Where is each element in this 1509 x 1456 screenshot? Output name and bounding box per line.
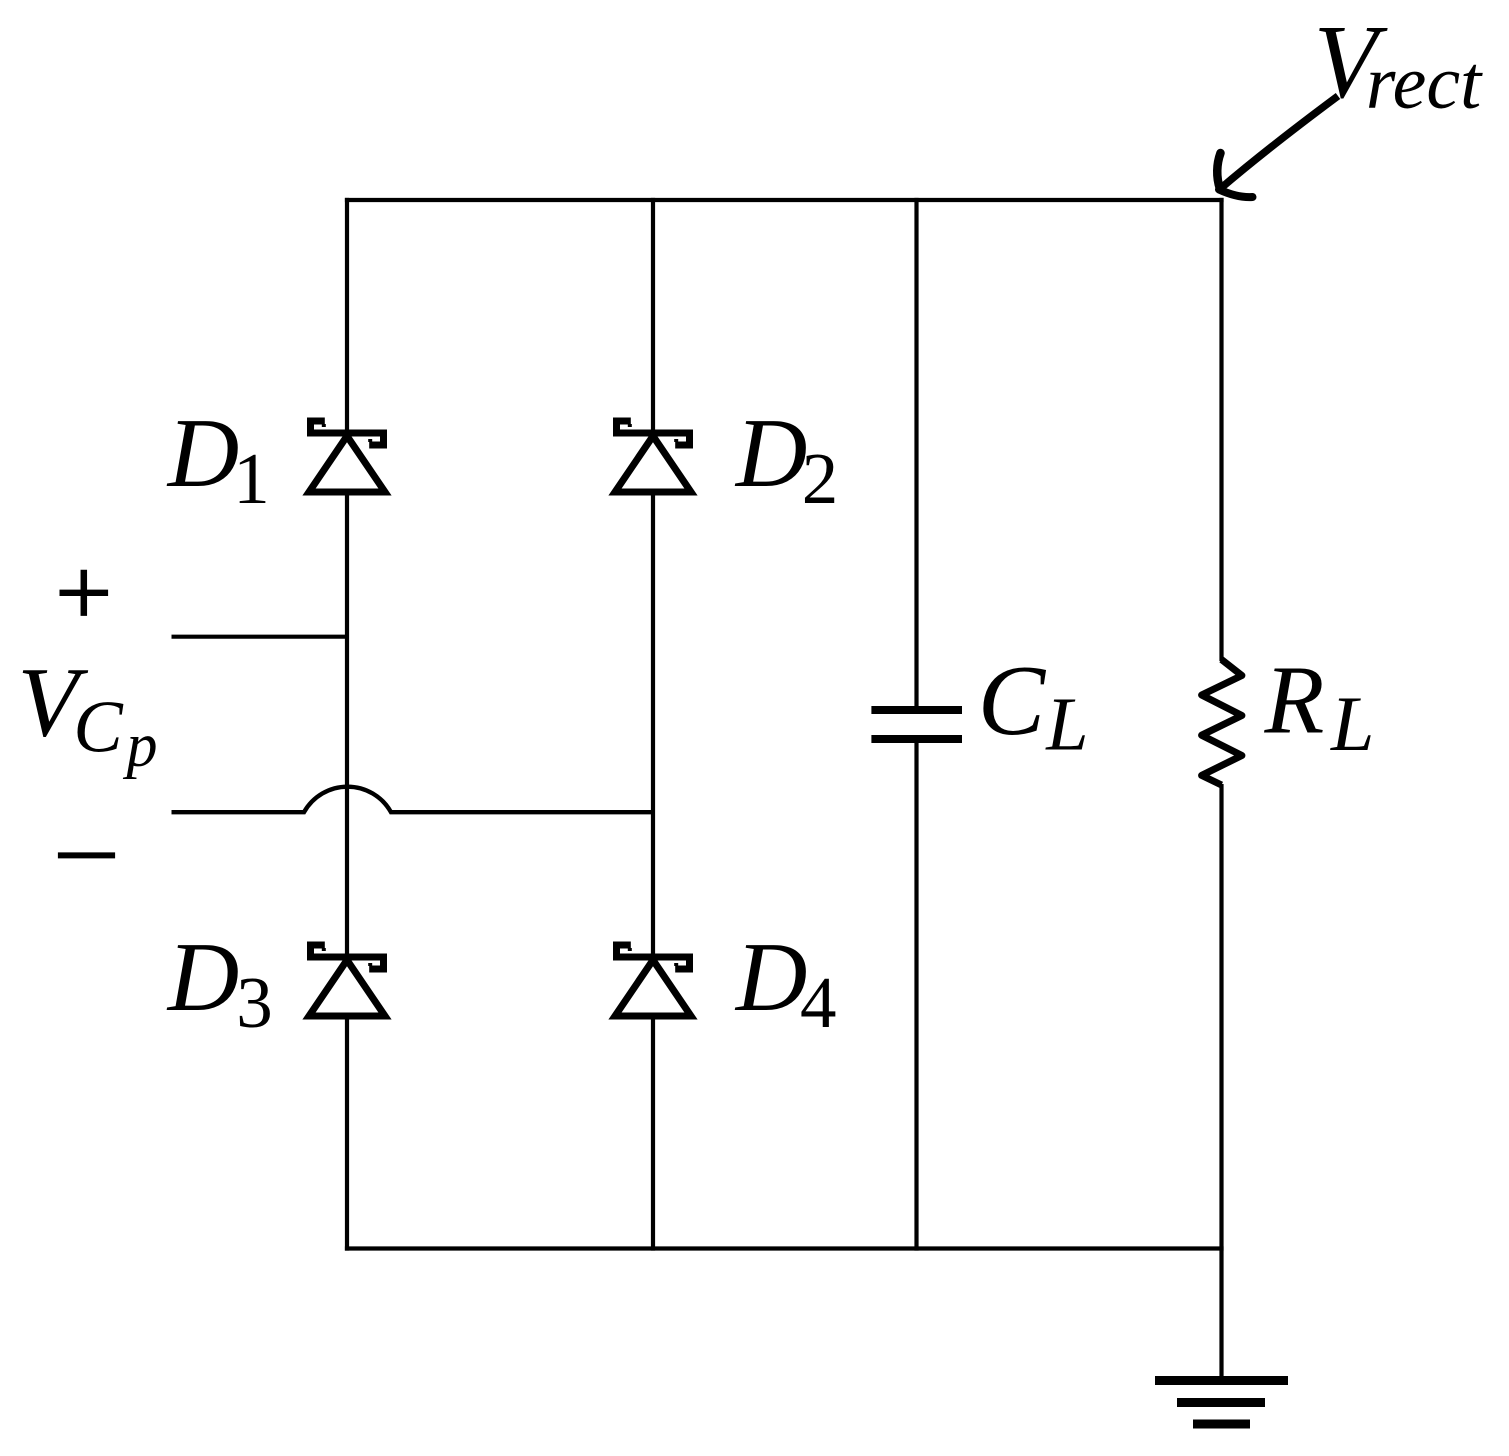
label D2 [734, 399, 838, 519]
wire left branch lower [345, 1016, 349, 1251]
label D1 [166, 399, 270, 519]
ground [1155, 1381, 1288, 1425]
wire bridge branch 2 middle [651, 492, 655, 957]
diode D1 [309, 421, 385, 492]
svg-text:D: D [734, 923, 808, 1032]
svg-text:D: D [734, 399, 808, 508]
wire load branch lower [1219, 784, 1223, 1381]
wire bridge branch 2 lower [651, 1016, 655, 1251]
wire top rail [345, 198, 1224, 202]
svg-text:rect: rect [1366, 41, 1483, 125]
wire bottom rail [345, 1246, 1224, 1250]
svg-text:L: L [1330, 680, 1374, 767]
svg-text:L: L [1045, 682, 1088, 766]
svg-text:3: 3 [236, 962, 272, 1043]
label D3 [166, 923, 273, 1043]
wire bridge branch 2 upper [651, 198, 655, 433]
svg-text:p: p [123, 711, 158, 779]
svg-text:1: 1 [233, 438, 270, 519]
svg-text:D: D [166, 923, 240, 1032]
svg-text:4: 4 [800, 962, 837, 1043]
svg-text:2: 2 [802, 438, 839, 519]
svg-text:C: C [73, 687, 124, 769]
label D4 [734, 923, 837, 1043]
wire left branch upper [345, 198, 349, 433]
label Vrect [1314, 4, 1483, 125]
wire load branch upper [1219, 198, 1223, 661]
svg-text:C: C [978, 644, 1047, 756]
label + polarity [60, 570, 109, 616]
label RL [1264, 647, 1375, 768]
label CL [978, 644, 1089, 767]
wire stub negative with hop [172, 787, 654, 813]
wire stub positive [172, 635, 348, 639]
diode D3 [309, 945, 385, 1016]
wire capacitor branch upper [914, 198, 918, 710]
diode D4 [615, 945, 691, 1016]
svg-text:R: R [1264, 647, 1325, 755]
capacitor CL [871, 710, 962, 739]
svg-text:D: D [166, 399, 240, 508]
label - polarity [58, 852, 115, 858]
label VCp [18, 646, 158, 779]
resistor RL [1202, 660, 1242, 786]
diode D2 [615, 421, 691, 492]
node Vrect arrow [1217, 96, 1338, 197]
wire capacitor branch lower [914, 739, 918, 1251]
wire left branch middle [345, 492, 349, 957]
